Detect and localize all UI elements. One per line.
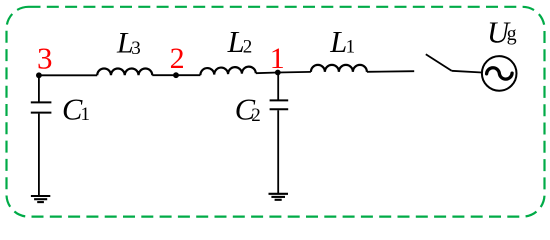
wire L3 to L2 through node 2 xyxy=(152,74,200,76)
svg-text:2: 2 xyxy=(170,42,185,75)
node 1 junction dot xyxy=(275,70,281,76)
svg-text:1: 1 xyxy=(346,37,356,58)
wire L2 to node 1 xyxy=(256,72,278,75)
capacitor C2 top plate xyxy=(270,99,289,101)
inductor L1 xyxy=(311,65,367,72)
AC source Ug circle xyxy=(482,56,517,91)
AC source sine symbol xyxy=(487,68,512,79)
svg-text:2: 2 xyxy=(251,105,260,126)
svg-text:3: 3 xyxy=(37,41,53,76)
wire node 3 down to C1 xyxy=(38,75,40,101)
switch blade xyxy=(426,54,452,71)
svg-text:3: 3 xyxy=(131,38,141,59)
inductor L2 xyxy=(200,67,255,75)
svg-text:1: 1 xyxy=(81,104,91,125)
wire C2 to ground xyxy=(277,110,279,193)
wire L1 to switch xyxy=(367,70,414,73)
wire node 1 to L1 xyxy=(278,71,311,74)
ground under C2 xyxy=(269,194,289,200)
node 3 junction dot xyxy=(36,72,42,78)
wire switch to source xyxy=(452,71,482,73)
wire C1 to ground xyxy=(38,114,40,196)
node 2 junction dot xyxy=(173,72,179,78)
capacitor C1 top plate xyxy=(31,101,52,103)
svg-text:g: g xyxy=(507,23,517,45)
wire node 1 down to C2 xyxy=(277,73,279,100)
ground under C1 xyxy=(31,196,50,202)
svg-text:2: 2 xyxy=(243,37,253,58)
inductor L3 xyxy=(97,68,152,75)
capacitor C1 bottom plate xyxy=(31,112,52,114)
wire node3 to L3 xyxy=(39,74,97,76)
capacitor C2 bottom plate xyxy=(270,108,289,110)
svg-text:L: L xyxy=(329,25,347,59)
